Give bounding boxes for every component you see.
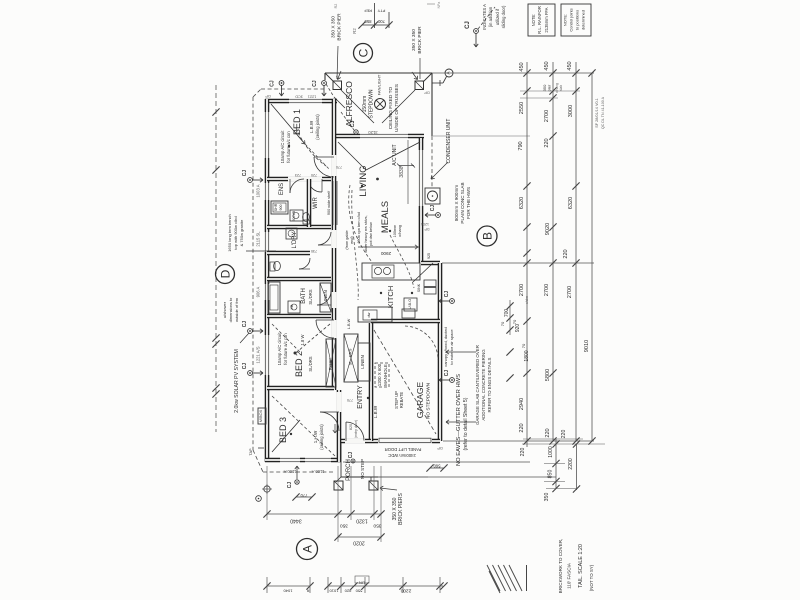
svg-text:(from gable: (from gable: [345, 230, 349, 249]
wall ldry/wc: [267, 251, 310, 256]
svg-text:BRICK PIER: BRICK PIER: [337, 13, 343, 41]
wall bed3 bottom: [265, 458, 341, 463]
window inner track line: [407, 140, 409, 204]
wall ens/ldry: [267, 225, 331, 230]
wall wc/bath: [267, 277, 331, 282]
svg-text:CJ: CJ: [312, 80, 318, 87]
svg-text:NOTE:: NOTE:: [563, 14, 568, 26]
svg-text:5800: 5800: [545, 369, 551, 381]
bath tub: [268, 282, 280, 313]
svg-text:L.B.W: L.B.W: [309, 120, 314, 133]
wall bed2/bed3: [267, 386, 334, 391]
svg-text:723: 723: [295, 173, 301, 177]
svg-text:o/dim: o/dim: [525, 296, 529, 304]
svg-text:1206: 1206: [421, 222, 429, 226]
svg-text:6320: 6320: [568, 197, 574, 209]
svg-text:900VB: 900VB: [292, 210, 296, 221]
porch slab: [340, 443, 342, 477]
svg-text:560: 560: [433, 464, 441, 469]
svg-text:CJ: CJ: [444, 291, 450, 298]
cj garage right wall upper: [450, 299, 455, 304]
svg-text:1.H.W: 1.H.W: [313, 430, 318, 443]
svg-text:70: 70: [500, 321, 505, 326]
svg-text:220: 220: [545, 428, 551, 437]
dim 560 garage corner: [430, 467, 444, 469]
bed3 door swing: [320, 412, 339, 431]
svg-text:DP: DP: [437, 446, 443, 450]
svg-text:1650 long brm bench: 1650 long brm bench: [227, 214, 232, 252]
wall house left: [265, 99, 270, 462]
svg-text:220: 220: [561, 430, 567, 439]
svg-text:NO EAVES—GUTTER OVER HWS: NO EAVES—GUTTER OVER HWS: [456, 374, 462, 466]
svg-text:SF 28/01/14 V0.1: SF 28/01/14 V0.1: [595, 98, 599, 128]
svg-text:LINEN: LINEN: [323, 290, 328, 304]
svg-text:CJ: CJ: [242, 170, 248, 177]
svg-text:9010: 9010: [584, 340, 590, 352]
wall bed1 top: [265, 99, 337, 104]
svg-text:REFER TO ENGS DETAILS: REFER TO ENGS DETAILS: [487, 357, 492, 412]
svg-text:CJ: CJ: [350, 120, 356, 127]
svg-text:9020: 9020: [545, 223, 551, 235]
svg-text:DP: DP: [424, 227, 430, 231]
svg-text:u/shower: u/shower: [222, 301, 227, 318]
svg-text:2550: 2550: [519, 102, 525, 114]
wall bed3 right: [337, 390, 342, 462]
svg-text:(ceiling joists): (ceiling joists): [315, 114, 320, 140]
svg-text:A/C UNIT: A/C UNIT: [392, 144, 398, 165]
svg-text:TAIL. SCALE 1:20: TAIL. SCALE 1:20: [578, 544, 584, 588]
bed1 truss diagonal: [271, 104, 305, 144]
fan/light symbol: [375, 99, 386, 110]
bottom dim chain 1: [267, 513, 381, 515]
svg-text:PTY: PTY: [377, 9, 385, 14]
svg-text:3CD: 3CD: [295, 95, 303, 99]
svg-text:100mm: 100mm: [393, 225, 397, 238]
svg-text:820: 820: [344, 589, 351, 594]
svg-text:150mm: 150mm: [362, 96, 368, 113]
svg-text:CJ: CJ: [270, 80, 276, 87]
svg-text:pier: pier: [547, 84, 552, 91]
svg-text:925: 925: [427, 253, 431, 259]
living truss diagonals: [338, 142, 366, 170]
wc door swing: [299, 258, 310, 269]
wall garage right: [438, 263, 443, 441]
svg-text:3830: 3830: [399, 166, 405, 177]
svg-text:2135mm FFA: 2135mm FFA: [544, 7, 549, 32]
cj left wall markers: [248, 178, 253, 183]
island bench: [358, 307, 392, 322]
bath door swing: [317, 291, 331, 305]
manhole dashed: [375, 363, 389, 387]
svg-text:350: 350: [544, 493, 550, 502]
svg-text:BRICK PIERS: BRICK PIERS: [398, 493, 404, 525]
svg-text:700: 700: [504, 309, 510, 318]
svg-text:1221: 1221: [308, 95, 316, 99]
svg-text:1100 A: 1100 A: [311, 469, 324, 474]
garage panel lift door: [379, 438, 431, 442]
dim chain line 3: [575, 62, 577, 441]
svg-text:BED 1: BED 1: [292, 109, 302, 135]
svg-text:450: 450: [544, 61, 550, 70]
svg-text:A: A: [300, 545, 314, 553]
svg-text:CEILING FIXED TO: CEILING FIXED TO: [388, 87, 394, 130]
porch piers: [334, 481, 343, 490]
svg-text:MEALS: MEALS: [380, 201, 391, 233]
svg-text:R.L. RAINFOR: R.L. RAINFOR: [537, 6, 542, 34]
note box 2: [561, 4, 591, 36]
svg-text:770: 770: [300, 493, 308, 498]
wc fixture: [274, 261, 281, 270]
svg-text:CJ: CJ: [430, 205, 436, 212]
svg-text:770: 770: [347, 398, 353, 402]
wall kitchen step to garage: [421, 261, 440, 266]
svg-text:10amp A/C circuit: 10amp A/C circuit: [277, 332, 282, 366]
wall garage bottom: [371, 439, 440, 444]
svg-text:906 A: 906 A: [256, 286, 261, 297]
svg-text:PANEL LIFT DOOR: PANEL LIFT DOOR: [385, 447, 422, 452]
svg-text:ENTRY: ENTRY: [357, 385, 364, 409]
svg-text:900: 900: [279, 205, 283, 211]
svg-text:2200: 2200: [568, 458, 574, 470]
svg-text:350 X 350: 350 X 350: [411, 29, 417, 51]
wall bed1 right / corridor: [332, 99, 337, 390]
svg-text:BRICK PIER: BRICK PIER: [417, 26, 423, 54]
svg-text:70: 70: [512, 319, 517, 324]
svg-text:LIVING: LIVING: [358, 165, 369, 196]
svg-text:900 wide shelf: 900 wide shelf: [327, 190, 331, 215]
svg-text:1800: 1800: [524, 350, 530, 361]
svg-text:850: 850: [364, 19, 372, 24]
svg-text:U.B.O: U.B.O: [408, 299, 412, 309]
boundary setback dims top: [374, 3, 376, 28]
eaves dashed outline left side: [252, 97, 254, 450]
grid bubble C: [354, 44, 373, 63]
wall meals right: [419, 138, 424, 263]
svg-text:1010: 1010: [329, 589, 339, 594]
hall closet sl/drs: [344, 334, 358, 382]
bottom dim chain 2: [338, 536, 381, 538]
alfresco slab edge: [325, 72, 432, 74]
svg-text:SL/DRS: SL/DRS: [308, 356, 313, 371]
wall bed1/ens: [267, 177, 331, 182]
svg-text:slab: slab: [559, 85, 563, 91]
svg-text:730: 730: [311, 249, 317, 253]
wall living top below alfresco: [334, 134, 424, 139]
ldry bench leader: [246, 250, 276, 252]
bed3 truss diagonals: [272, 396, 335, 456]
svg-text:INDICATES A: INDICATES A: [482, 4, 487, 30]
ubo oven: [404, 298, 417, 311]
svg-text:2020: 2020: [353, 540, 365, 546]
svg-text:SL/DRS: SL/DRS: [308, 289, 313, 304]
kitchen sink: [372, 265, 394, 278]
living leader curves dashed: [349, 185, 372, 262]
svg-text:BED 2: BED 2: [294, 351, 304, 377]
corner pantry: [413, 263, 433, 282]
ens vanity: [290, 210, 303, 221]
svg-text:R: R: [306, 589, 309, 593]
svg-text:CJ: CJ: [444, 370, 450, 377]
svg-text:dimensions to: dimensions to: [228, 297, 233, 322]
svg-text:dw: dw: [367, 312, 371, 317]
svg-text:R2: R2: [334, 4, 338, 9]
svg-text:350: 350: [340, 523, 348, 529]
svg-text:L.B.W: L.B.W: [347, 318, 351, 329]
svg-text:1003 A: 1003 A: [256, 184, 261, 197]
svg-text:1320: 1320: [356, 518, 368, 524]
bed2 robe: [326, 339, 336, 387]
small bubble bottom left: [256, 496, 262, 502]
ens wc: [303, 213, 310, 222]
wall garage left / entry right: [369, 323, 374, 441]
svg-text:720: 720: [311, 173, 317, 177]
bed2 leader curve dashed: [297, 324, 330, 352]
ldry door swing: [318, 232, 331, 245]
bed1 leader curve dashed: [296, 128, 326, 166]
svg-text:770: 770: [336, 165, 342, 169]
brick pier alfresco right: [415, 81, 424, 90]
svg-text:2.0kw SOLAR PV SYSTEM: 2.0kw SOLAR PV SYSTEM: [234, 349, 240, 413]
ens shower: [271, 201, 288, 214]
svg-text:REF: REF: [363, 9, 372, 14]
ldry trough: [286, 228, 297, 239]
svg-text:CONDENSER UNIT: CONDENSER UNIT: [446, 118, 452, 163]
alfresco ceiling diagonals: [341, 90, 374, 123]
svg-text:(NOT TO SY): (NOT TO SY): [589, 564, 594, 591]
cj markers on top wall: [279, 81, 284, 86]
svg-text:QC DL TN 41-100 A: QC DL TN 41-100 A: [601, 96, 605, 129]
svg-text:2115 SL: 2115 SL: [256, 231, 261, 247]
svg-text:CJ: CJ: [242, 363, 248, 370]
svg-text:220: 220: [544, 138, 550, 147]
bed1 door swing: [314, 157, 334, 177]
svg-text:Control joints: Control joints: [569, 8, 574, 31]
svg-text:700: 700: [377, 19, 385, 24]
svg-text:ROBE: ROBE: [328, 358, 333, 371]
svg-text:SL - DRS: SL - DRS: [348, 348, 353, 365]
svg-text:BRICKWORK TO COVER,: BRICKWORK TO COVER,: [558, 539, 563, 594]
eaves detail fascia line: [526, 565, 528, 591]
svg-text:M/BOX: M/BOX: [258, 409, 263, 422]
site boundary dashed line far left: [215, 85, 217, 432]
grid bubble B: [477, 226, 497, 246]
svg-text:SINK: SINK: [417, 283, 421, 292]
svg-text:450: 450: [567, 61, 573, 70]
svg-text:LIN: LIN: [359, 581, 365, 585]
svg-text:450: 450: [519, 62, 525, 71]
wir door swing: [321, 179, 323, 192]
svg-text:(in addition: (in addition: [488, 6, 493, 27]
svg-text:U/SIDE OF TRUSSES: U/SIDE OF TRUSSES: [394, 84, 400, 132]
svg-text:pot drw below: pot drw below: [369, 222, 373, 246]
porch chain extension lines: [523, 438, 583, 440]
svg-text:(refer to detail Sheet 5): (refer to detail Sheet 5): [463, 397, 469, 450]
wall bath/bed2: [267, 314, 331, 319]
dim chain line 2: [552, 62, 554, 441]
svg-text:DP: DP: [424, 91, 430, 95]
svg-text:CJ: CJ: [348, 452, 354, 459]
svg-text:2700: 2700: [544, 110, 550, 122]
svg-text:3440: 3440: [290, 518, 302, 524]
dim chain line 1: [526, 62, 528, 447]
svg-text:to positions: to positions: [575, 10, 580, 30]
wall ens-wir divider: [307, 179, 312, 227]
porch dim chain: [555, 439, 557, 489]
alfresco corner diagonals: [325, 73, 334, 82]
bottom chain extension lines: [266, 466, 268, 520]
svg-text:end): end): [350, 235, 354, 243]
svg-text:850: 850: [548, 470, 554, 479]
svg-text:6320: 6320: [519, 197, 525, 209]
svg-text:& 750w granite: & 750w granite: [239, 219, 244, 246]
svg-text:NO STEPDOWN: NO STEPDOWN: [426, 382, 432, 419]
ens door swing: [289, 179, 291, 193]
svg-text:2700: 2700: [544, 284, 550, 296]
bottom overall chain: [267, 585, 310, 587]
svg-text:2900: 2900: [380, 251, 391, 256]
svg-text:550: 550: [355, 589, 362, 594]
datum bubble A small right of alfresco: [432, 82, 443, 84]
dim 2200 chain: [576, 444, 578, 490]
entry door swing: [345, 422, 347, 441]
cj under bed3 wall: [295, 480, 299, 484]
svg-text:canopy r/hood, ducted: canopy r/hood, ducted: [443, 327, 448, 367]
svg-text:800mm X 900mm: 800mm X 900mm: [454, 185, 459, 221]
svg-text:SHR: SHR: [274, 203, 278, 211]
svg-text:for future a/c con: for future a/c con: [283, 333, 288, 365]
wall kitchen-garage: [371, 319, 440, 324]
svg-text:REBATE: REBATE: [399, 392, 404, 409]
svg-text:NPa: NPa: [437, 2, 441, 9]
svg-text:350 X 350: 350 X 350: [331, 16, 337, 38]
garage diagonal dashed: [374, 330, 436, 434]
svg-text:TAP: TAP: [248, 448, 253, 456]
m/box on left wall: [258, 408, 266, 424]
svg-text:10amp A/C circuit: 10amp A/C circuit: [280, 130, 285, 164]
svg-text:2400mm WDC: 2400mm WDC: [388, 453, 415, 458]
svg-text:110' FASCIA: 110' FASCIA: [567, 562, 572, 589]
eaves dashed line right of meals wall: [431, 136, 433, 187]
svg-text:(ceiling joists): (ceiling joists): [319, 424, 324, 450]
datum circle bottom left: [264, 486, 270, 492]
svg-text:GARAGE SLAB CANTILEVERED OVER: GARAGE SLAB CANTILEVERED OVER: [475, 345, 480, 425]
linen closet hall: [320, 283, 331, 312]
note box 1: [528, 4, 555, 36]
linen hall closet: [358, 343, 370, 381]
svg-text:determined: determined: [581, 10, 586, 30]
svg-text:1200 X 600: 1200 X 600: [377, 363, 382, 386]
svg-text:L.B.W: L.B.W: [373, 405, 378, 418]
svg-text:ENS: ENS: [279, 183, 285, 195]
svg-text:WIR: WIR: [313, 197, 319, 209]
svg-text:VB: VB: [290, 304, 294, 309]
svg-text:2200: 2200: [400, 588, 411, 594]
svg-text:utilized if: utilized if: [495, 8, 500, 25]
svg-text:to exterior air space: to exterior air space: [449, 329, 454, 365]
svg-text:R2: R2: [352, 28, 357, 34]
svg-text:70: 70: [521, 343, 526, 348]
svg-text:LINEN: LINEN: [360, 355, 365, 369]
grid bubble A: [297, 539, 318, 560]
svg-text:220: 220: [519, 423, 525, 432]
svg-text:3120: 3120: [368, 130, 378, 135]
svg-text:1000: 1000: [548, 446, 554, 458]
eaves detail hatch: [487, 565, 500, 591]
svg-text:1040: 1040: [283, 589, 293, 594]
svg-text:ADDITIONAL CONCRETE PIERING: ADDITIONAL CONCRETE PIERING: [481, 349, 486, 421]
bath vanity: [288, 301, 300, 313]
svg-text:KITCH: KITCH: [386, 286, 395, 309]
window bed1 top wall: [289, 99, 322, 104]
garage door arc dashed: [405, 326, 438, 360]
svg-text:2700: 2700: [567, 286, 573, 298]
svg-text:350: 350: [373, 523, 381, 529]
svg-text:ALFRESCO: ALFRESCO: [344, 81, 354, 127]
svg-text:o/hang: o/hang: [398, 225, 402, 237]
svg-text:400b cpn brm c/bd: 400b cpn brm c/bd: [357, 212, 361, 243]
kitchen bench: [362, 263, 420, 280]
cj meals wall: [436, 213, 441, 218]
bed2 truss dashes: [272, 324, 300, 352]
svg-text:D: D: [218, 269, 232, 278]
svg-text:MANHOLE: MANHOLE: [383, 364, 388, 386]
svg-text:C: C: [356, 48, 370, 57]
svg-text:outside of frm: outside of frm: [234, 297, 239, 322]
svg-text:CJ: CJ: [242, 321, 248, 328]
svg-text:(entry door): (entry door): [354, 420, 358, 438]
extension lines to dim chains: [432, 72, 594, 74]
condenser unit box: [425, 188, 440, 204]
dp arrows at piers: [338, 71, 342, 80]
svg-text:PLAIN CONC SLAB: PLAIN CONC SLAB: [460, 182, 465, 223]
svg-text:sliding door): sliding door): [501, 5, 506, 28]
svg-text:STEPDOWN: STEPDOWN: [369, 89, 375, 118]
svg-text:3000: 3000: [568, 105, 574, 117]
svg-text:220: 220: [563, 249, 569, 258]
brick pier alfresco left: [333, 81, 342, 90]
svg-text:1.8 W: 1.8 W: [300, 334, 305, 345]
svg-text:B: B: [480, 232, 494, 240]
svg-text:1221 A/S: 1221 A/S: [256, 346, 261, 363]
svg-text:1100 A: 1100 A: [283, 469, 296, 474]
dim chain line 4 overall: [591, 73, 593, 441]
svg-text:CJ: CJ: [287, 482, 293, 489]
dim 2900 kitchen: [358, 246, 419, 248]
svg-text:NOTE:: NOTE:: [531, 14, 536, 27]
wall entry front: [339, 439, 371, 444]
dim 770 porch: [296, 496, 312, 498]
cj garage right wall: [450, 378, 455, 383]
svg-text:DP: DP: [265, 94, 271, 98]
svg-text:2940: 2940: [519, 398, 525, 410]
svg-text:FAN/LIGHT: FAN/LIGHT: [377, 74, 382, 95]
svg-text:2700: 2700: [519, 284, 525, 296]
svg-text:BATH: BATH: [301, 288, 307, 304]
svg-text:820: 820: [349, 424, 353, 430]
wir shelf: [332, 181, 334, 225]
svg-text:CJ: CJ: [465, 21, 471, 29]
bed2 door swing: [316, 320, 334, 338]
svg-text:top with 900w c/bd: top with 900w c/bd: [233, 216, 238, 249]
svg-text:FOR THE HWS: FOR THE HWS: [466, 187, 471, 219]
svg-text:220: 220: [520, 448, 526, 457]
grid bubble D: [216, 265, 235, 284]
svg-text:790: 790: [518, 141, 524, 150]
